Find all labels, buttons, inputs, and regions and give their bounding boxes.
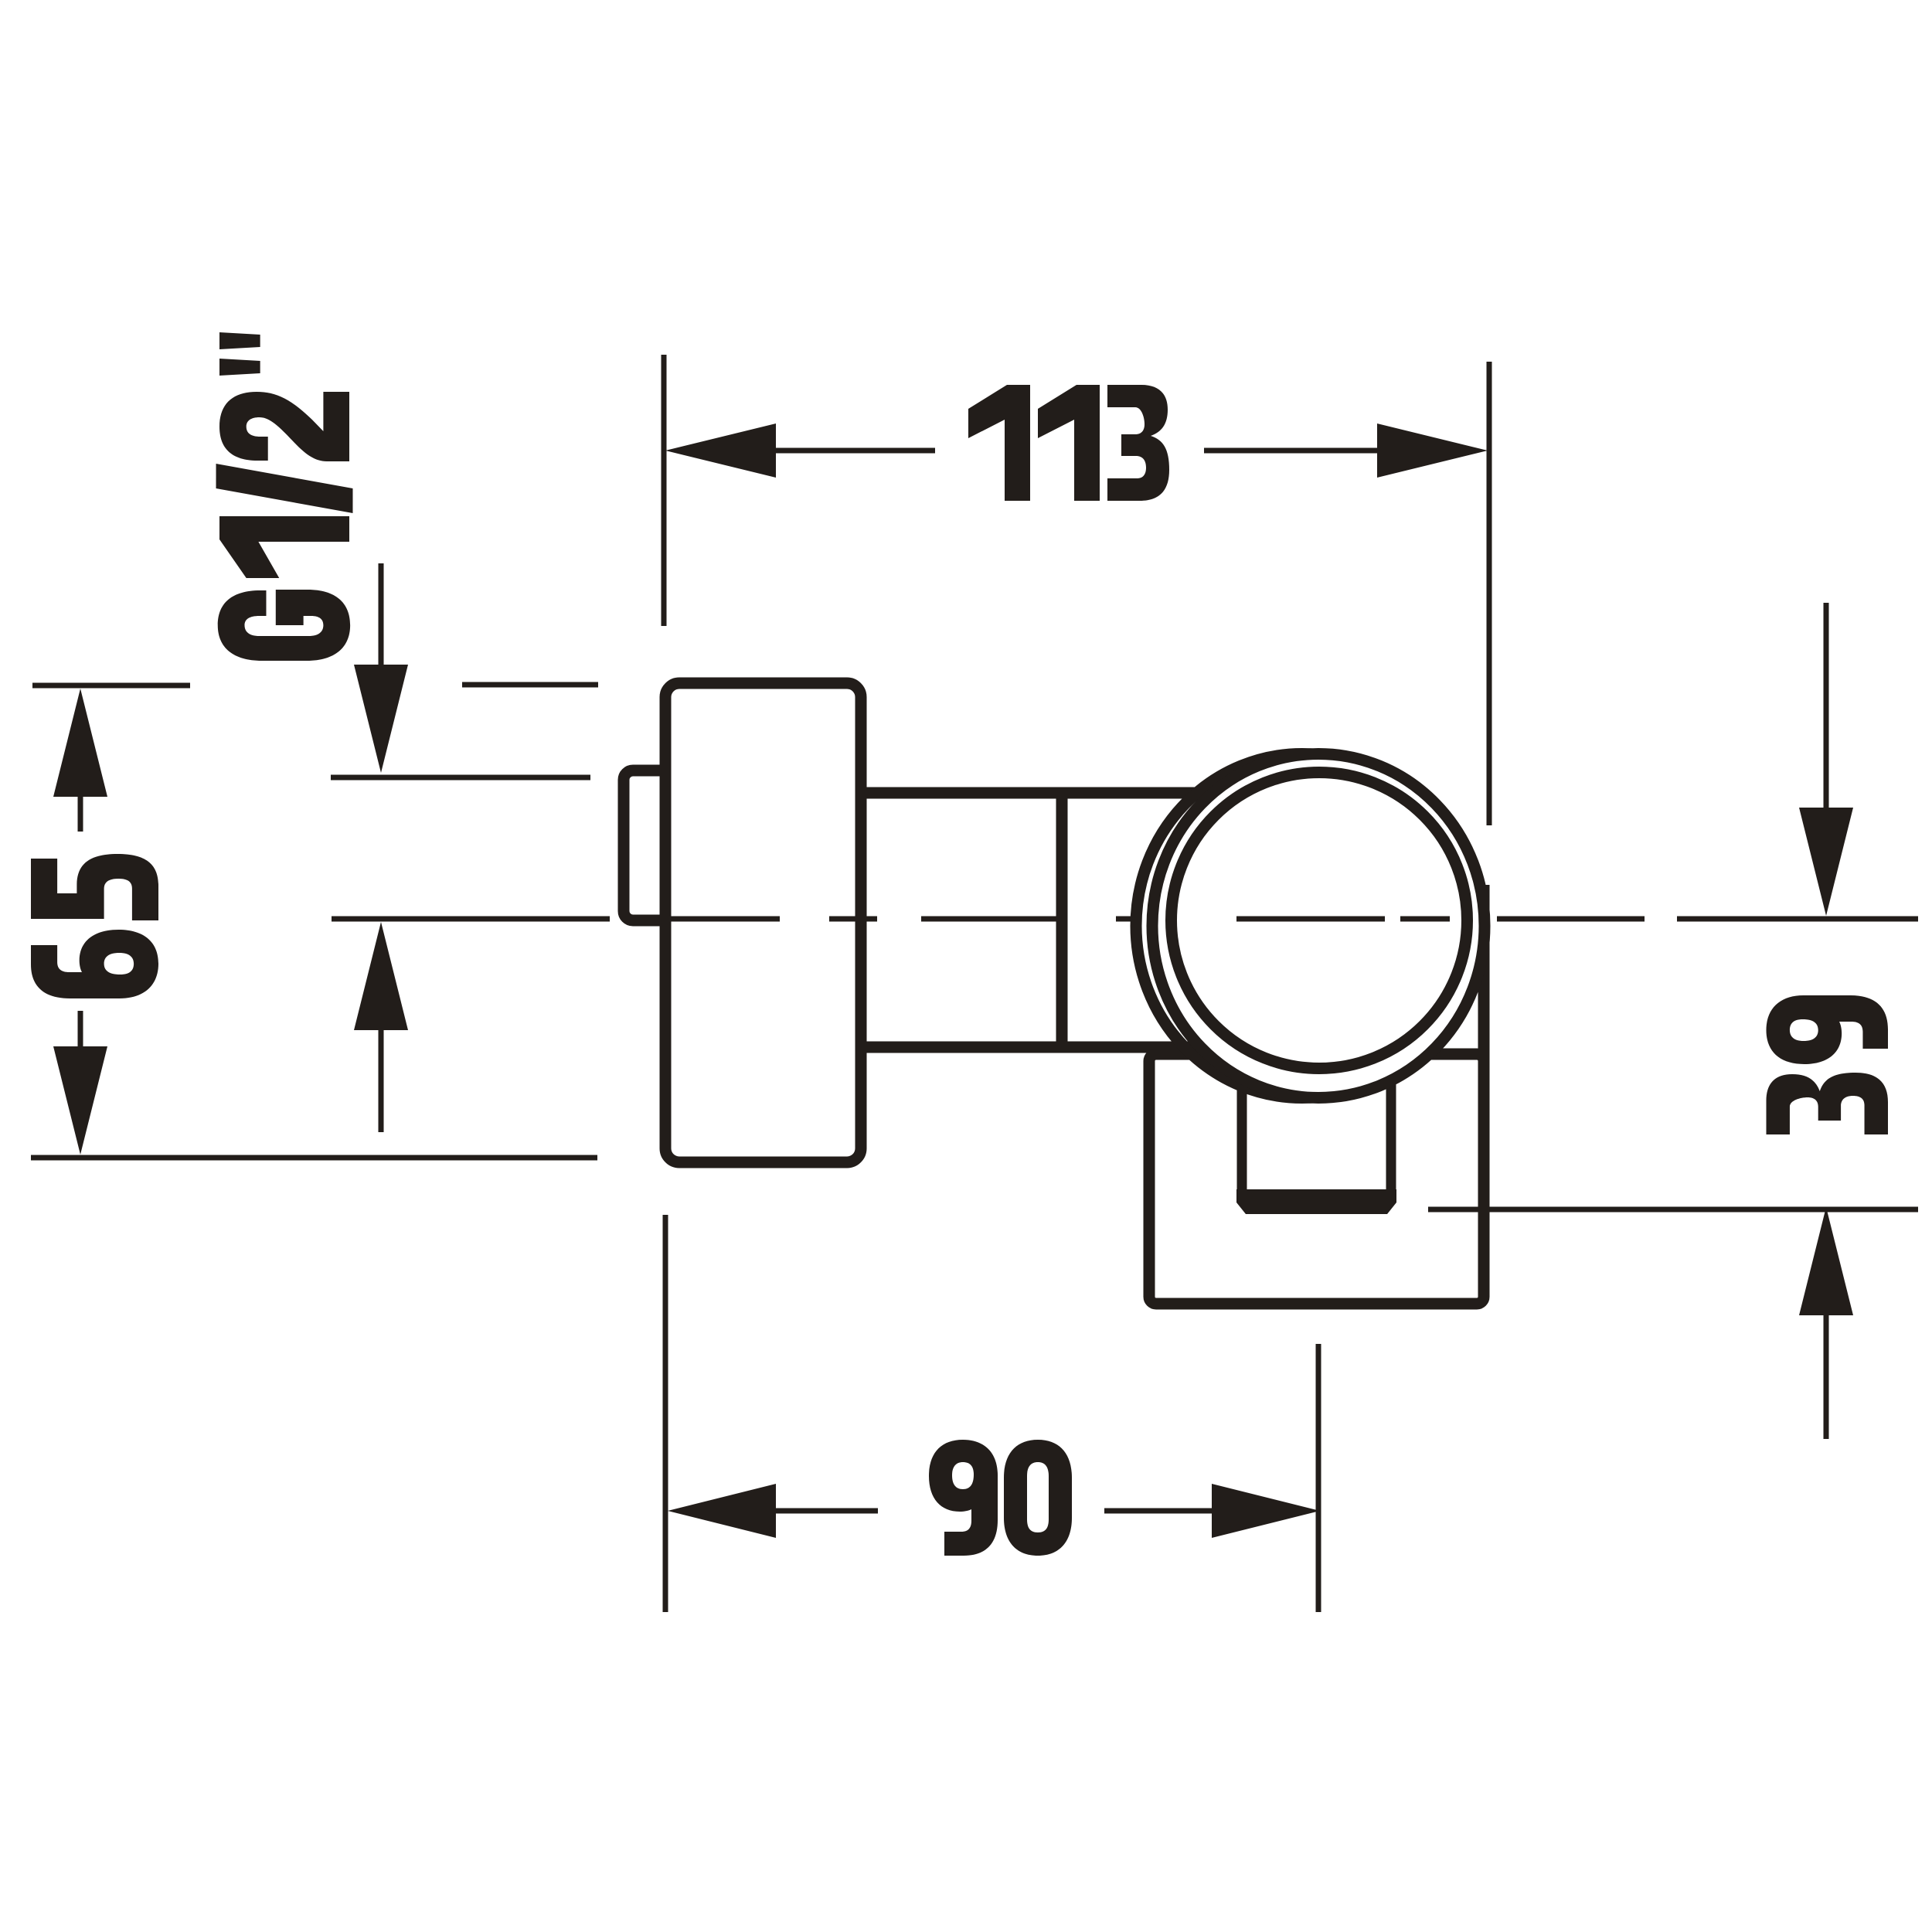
flange / handle body (large rounded rect)	[665, 683, 861, 1162]
dim 39 nozzle-bottom extension line	[1428, 1207, 1918, 1213]
flange top edge extension	[462, 682, 598, 688]
thin dimension / extension lines	[31, 355, 1918, 1612]
dim 113 line left tail	[773, 448, 935, 454]
dim 65 bottom extension line	[31, 1155, 597, 1161]
G1/2 leader upper segment	[379, 563, 384, 666]
label 90	[929, 1440, 1072, 1556]
wall plate square	[1149, 1054, 1484, 1304]
G1/2 up arrow	[354, 922, 408, 1030]
dim 113 left extension line	[662, 355, 667, 626]
label 65 (rotated)	[31, 854, 158, 998]
outlet vertical centerline	[1316, 1344, 1321, 1612]
nozzle left edge	[1237, 1051, 1247, 1198]
dim 65 top extension line	[32, 683, 190, 689]
dim 90 left extension line	[663, 1215, 668, 1612]
wall plate right edge upper extension	[1478, 885, 1490, 1066]
dim 39 up arrow	[1799, 1207, 1853, 1315]
nozzle right edge	[1386, 1051, 1396, 1198]
dim 90 line left tail	[773, 1509, 878, 1514]
label 39 (rotated)	[1767, 995, 1889, 1134]
dim 113 right arrow	[1377, 423, 1488, 478]
nozzle bottom bar	[1236, 1189, 1396, 1214]
arrowheads	[53, 423, 1853, 1538]
G1/2 down arrow	[354, 665, 408, 773]
dim 39 upper tail	[1824, 603, 1829, 810]
dim 90 right arrow	[1212, 1484, 1320, 1538]
tab top edge extension	[331, 775, 590, 781]
dim 39 down arrow	[1799, 808, 1853, 916]
dim 65 up arrow	[53, 689, 107, 797]
G1/2 lower leader tail	[379, 1028, 384, 1132]
dim 113 right extension line	[1487, 362, 1492, 825]
shaft top line	[861, 787, 1217, 799]
dim 113 left arrow	[665, 423, 776, 478]
label G1/2 inch (rotated)	[216, 332, 353, 661]
outlet inner circle	[1172, 773, 1468, 1069]
horizontal centerline (dash-dot)	[332, 917, 1918, 922]
shaft bottom line	[861, 1042, 1206, 1053]
outlet ring front circle	[1152, 754, 1485, 1098]
dim 65 down arrow	[53, 1046, 107, 1155]
dim 90 left arrow	[668, 1484, 776, 1538]
dim 90 line right tail	[1104, 1509, 1215, 1514]
dim 39 lower tail	[1824, 1312, 1829, 1439]
dim 113 line right tail	[1204, 448, 1383, 454]
shaft joint vertical	[1056, 793, 1068, 1047]
dim 65 lower tail	[78, 1011, 83, 1048]
label 113	[968, 385, 1169, 501]
outlet ring back circle (offset)	[1136, 754, 1468, 1098]
dim 65 upper tail	[78, 794, 83, 832]
G1/2 inlet tab (side view, behind flange)	[624, 770, 693, 920]
